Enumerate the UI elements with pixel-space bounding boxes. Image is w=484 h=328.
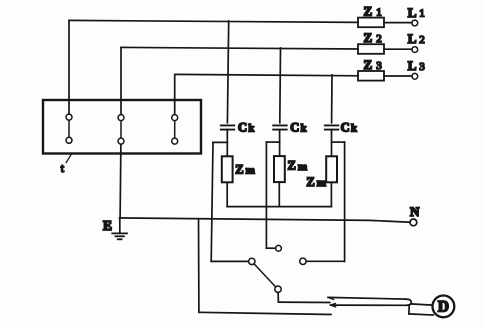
wire pivot lead to plug — [278, 301, 329, 303]
wire phase line 2 (to Z2) — [121, 47, 358, 49]
plug wand bottom line — [331, 304, 406, 306]
wire phase line 1 (to Z1) — [69, 20, 358, 22]
wire drop phase2 to capacitor branch 2 — [279, 48, 282, 123]
wire drop phase2 to switch pole 2 — [120, 48, 122, 114]
svg-text:C: C — [341, 121, 350, 135]
ground — [119, 218, 121, 232]
terminal L3 — [412, 73, 418, 79]
capacitor Ck branch 2 — [273, 125, 287, 129]
connector block bottom edge — [409, 314, 433, 315]
terminal L1 — [412, 20, 418, 26]
wire branch2 tap to contact b — [266, 247, 275, 249]
switch pivot — [275, 286, 281, 292]
wire branch3 tap stub — [332, 141, 345, 143]
svg-text:Z: Z — [364, 4, 373, 19]
connector block top edge — [411, 304, 432, 305]
impedance Zm2 — [274, 156, 285, 182]
svg-text:Z: Z — [235, 162, 243, 176]
wire cap1 to Zm1 — [226, 130, 228, 156]
svg-text:2: 2 — [419, 34, 425, 46]
plug wand right cap — [406, 299, 412, 305]
wire bottom lead to plug — [199, 312, 331, 314]
wire Zm bottom bus — [227, 206, 331, 208]
resistor Z1 — [358, 18, 384, 28]
plug wand arrow bottom — [331, 304, 336, 307]
wire Z2 to L2 — [384, 48, 412, 50]
wire drop phase1 to switch pole 1 — [68, 21, 70, 114]
wire Zm3 to bus — [330, 183, 332, 207]
switch contact a — [249, 258, 255, 264]
svg-text:N: N — [410, 204, 420, 219]
wire Z3 to L3 — [384, 75, 412, 77]
svg-text:1: 1 — [419, 8, 425, 20]
switch blade (contact a to pivot) — [254, 264, 275, 287]
svg-text:E: E — [103, 218, 112, 233]
svg-text:t: t — [61, 163, 65, 175]
switch pole 1 link — [68, 120, 70, 137]
wire cap3 to Zm3 — [331, 130, 333, 156]
wire phase line 3 (to Z3) — [175, 74, 358, 75]
switch pole 3 contact bottom — [172, 138, 178, 144]
wire Z1 to L1 — [384, 22, 412, 24]
capacitor Ck branch 3 — [325, 125, 339, 129]
switch contact b — [276, 245, 282, 251]
terminal L2 — [412, 47, 418, 53]
svg-text:3: 3 — [419, 61, 425, 73]
wire branch1 tap drop to switch — [211, 142, 213, 261]
leader line to label t — [66, 155, 71, 163]
svg-text:C: C — [290, 121, 299, 135]
svg-text:k: k — [248, 123, 254, 134]
switch contact c — [300, 258, 306, 264]
svg-text:2: 2 — [376, 33, 382, 45]
wire drop phase1 to capacitor branch 1 — [227, 21, 228, 123]
svg-text:L: L — [408, 58, 417, 73]
wire Zm2 to bus — [278, 183, 280, 207]
wire drop phase3 to capacitor branch 3 — [331, 75, 333, 123]
impedance Zm3 — [326, 156, 337, 182]
switch pole 2 contact bottom — [118, 138, 124, 144]
wire branch2 tap drop to switch — [265, 142, 267, 248]
svg-text:k: k — [301, 123, 307, 134]
svg-text:m: m — [298, 161, 307, 173]
plug wand top line — [328, 297, 406, 299]
svg-text:1: 1 — [376, 6, 382, 18]
switch pole 1 contact bottom — [66, 137, 72, 143]
wire branch1 tap to contact a — [211, 260, 248, 262]
wire branch3 tap drop to switch — [344, 142, 346, 261]
svg-text:3: 3 — [376, 60, 382, 72]
switch pole 2 contact top — [118, 115, 124, 121]
wire drop phase3 to switch pole 3 — [174, 75, 176, 114]
svg-text:Z: Z — [288, 159, 296, 173]
plug wand arrow top — [328, 297, 334, 299]
wire branch1 tap stub — [213, 141, 227, 143]
resistor Z3 — [358, 71, 384, 81]
switch pole 2 link — [120, 121, 122, 138]
wire branch2 tap stub — [266, 141, 279, 143]
wire node E drop to bottom lead — [198, 219, 200, 313]
svg-text:L: L — [408, 31, 417, 46]
svg-text:Z: Z — [306, 175, 314, 189]
switch pole 1 contact top — [66, 114, 72, 120]
impedance Zm1 — [222, 156, 233, 182]
motor D — [433, 296, 455, 318]
capacitor Ck branch 1 — [221, 125, 235, 129]
resistor Z2 — [358, 44, 384, 54]
terminal N — [410, 219, 417, 226]
svg-text:C: C — [238, 121, 247, 135]
svg-text:Z: Z — [364, 57, 373, 72]
wire pivot down — [277, 293, 279, 303]
switch pole 3 link — [174, 121, 176, 138]
wire pole2 bottom down to node E — [119, 144, 122, 218]
switch box t — [43, 100, 201, 154]
switch pole 3 contact top — [172, 115, 178, 121]
svg-text:k: k — [351, 123, 357, 134]
wire node E to node N — [120, 218, 410, 222]
wire branch3 tap to contact c — [306, 260, 344, 262]
wire cap2 to Zm2 — [279, 130, 281, 156]
wire Zm1 to bus — [226, 183, 228, 207]
svg-text:D: D — [438, 299, 449, 316]
svg-text:m: m — [317, 177, 326, 189]
svg-text:L: L — [408, 5, 417, 20]
svg-text:Z: Z — [364, 30, 373, 45]
connector block left edge — [408, 305, 410, 314]
svg-text:m: m — [246, 165, 255, 177]
